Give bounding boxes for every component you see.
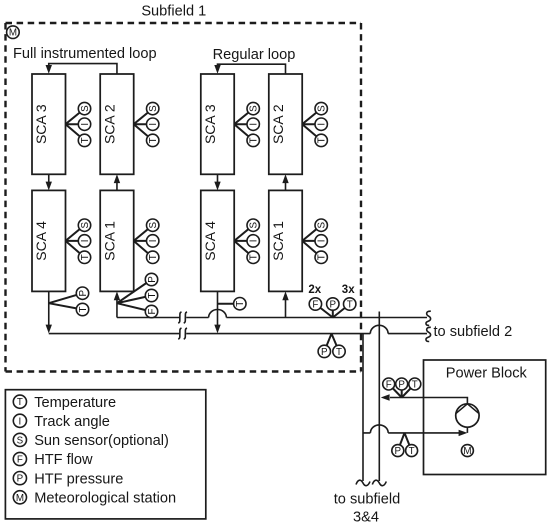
svg-text:to subfield: to subfield bbox=[334, 492, 401, 508]
svg-text:SCA 1: SCA 1 bbox=[101, 221, 117, 261]
sun sensor S SCA1 regular bbox=[315, 219, 327, 231]
svg-text:T: T bbox=[148, 137, 159, 143]
sensor fan SCA4 regular loop bbox=[234, 225, 253, 257]
wire SCA4 full loop outlet bbox=[48, 291, 50, 325]
svg-text:Full instrumented loop: Full instrumented loop bbox=[13, 46, 157, 62]
SCA 1 box full loop bbox=[100, 190, 134, 291]
SCA 2 box regular loop bbox=[269, 74, 302, 174]
sensor fan SCA1 full loop bbox=[134, 225, 153, 257]
temperature T SCA1 regular bbox=[315, 251, 327, 263]
svg-text:S: S bbox=[317, 105, 328, 112]
svg-text:to subfield 2: to subfield 2 bbox=[434, 324, 513, 340]
temperature T SCA3 full bbox=[78, 134, 90, 146]
svg-text:T: T bbox=[148, 254, 159, 260]
pressure P pump suction bbox=[392, 445, 404, 457]
SCA 1 box regular loop bbox=[269, 190, 302, 291]
legend meteorological station bbox=[13, 491, 26, 504]
svg-text:T: T bbox=[412, 379, 418, 390]
svg-text:P: P bbox=[321, 347, 328, 358]
svg-text:I: I bbox=[317, 123, 328, 126]
svg-text:Temperature: Temperature bbox=[34, 395, 116, 411]
pump U1 bbox=[456, 404, 479, 427]
arrow onto hot header mid bbox=[214, 325, 220, 334]
svg-text:I: I bbox=[249, 240, 260, 243]
arrow into SCA1 full loop bbox=[114, 291, 120, 300]
cold vertical from power block bbox=[378, 312, 380, 482]
wire SCA4 regular loop outlet bbox=[217, 291, 219, 325]
svg-text:T: T bbox=[249, 137, 260, 143]
arrow into pump bbox=[459, 430, 468, 436]
wire SCA1 regular loop inlet bbox=[285, 299, 287, 318]
sun sensor S SCA2 regular bbox=[315, 102, 327, 114]
svg-text:T: T bbox=[249, 254, 260, 260]
svg-text:3&4: 3&4 bbox=[353, 510, 379, 526]
hot header bbox=[49, 333, 427, 335]
svg-text:T: T bbox=[78, 306, 89, 312]
arrow into SCA4 regular loop bbox=[214, 182, 220, 191]
svg-text:SCA 4: SCA 4 bbox=[202, 221, 218, 261]
arrow into SCA3 regular loop bbox=[214, 65, 220, 74]
svg-text:F: F bbox=[386, 379, 392, 390]
pump discharge line bbox=[390, 398, 467, 404]
track angle I SCA4 full bbox=[78, 235, 90, 247]
hot header hop over cold vertical bbox=[370, 325, 388, 333]
squiggle end cold header bbox=[426, 311, 431, 325]
wire SCA1 to SCA2 full loop bbox=[116, 182, 118, 190]
svg-text:S: S bbox=[249, 105, 260, 112]
temperature T SCA4 regular outlet bbox=[234, 298, 246, 310]
sun sensor S SCA4 full bbox=[78, 219, 90, 231]
track angle I SCA2 full bbox=[147, 118, 159, 130]
svg-text:S: S bbox=[17, 435, 24, 446]
svg-text:SCA 3: SCA 3 bbox=[202, 104, 218, 144]
SCA 4 box full loop bbox=[32, 190, 66, 291]
flow F cold header bbox=[309, 298, 321, 310]
svg-text:SCA 3: SCA 3 bbox=[33, 104, 49, 144]
svg-text:S: S bbox=[148, 105, 159, 112]
temperature T SCA4 regular bbox=[247, 251, 259, 263]
svg-text:T: T bbox=[147, 292, 158, 298]
temperature T hot header bbox=[333, 345, 345, 357]
pressure P cold header bbox=[327, 298, 339, 310]
svg-text:I: I bbox=[317, 240, 328, 243]
svg-text:P: P bbox=[330, 299, 337, 310]
svg-text:P: P bbox=[398, 379, 405, 390]
sun sensor S SCA3 full bbox=[78, 102, 90, 114]
legend HTF flow bbox=[13, 452, 26, 465]
wire SCA1 full loop inlet bbox=[116, 299, 118, 318]
squiggle end hot header bbox=[426, 327, 431, 341]
temperature T pump suction bbox=[406, 445, 418, 457]
svg-text:T: T bbox=[80, 254, 91, 260]
arrow into SCA3 full loop bbox=[46, 65, 52, 74]
sensor fan SCA2 regular loop bbox=[302, 109, 321, 141]
svg-text:HTF pressure: HTF pressure bbox=[34, 471, 123, 487]
fan F P T power block discharge bbox=[389, 384, 415, 398]
arrow into cold vertical bbox=[381, 394, 390, 400]
wire SCA1 to SCA2 regular loop bbox=[285, 182, 287, 190]
svg-text:I: I bbox=[80, 240, 91, 243]
svg-text:Track angle: Track angle bbox=[34, 414, 110, 430]
sensor fan SCA3 full loop bbox=[66, 109, 85, 141]
fan F P T cold header bbox=[315, 304, 349, 318]
temperature T SCA4 full bbox=[78, 251, 90, 263]
fan P T power block suction bbox=[398, 433, 412, 451]
temperature T SCA4 full outlet bbox=[76, 303, 88, 315]
svg-text:T: T bbox=[336, 347, 342, 358]
squiggle end hot vertical bbox=[356, 480, 370, 486]
legend box bbox=[5, 390, 205, 519]
temperature T SCA2 full bbox=[147, 134, 159, 146]
svg-text:M: M bbox=[9, 28, 17, 39]
temperature T SCA3 regular bbox=[247, 134, 259, 146]
svg-text:M: M bbox=[16, 493, 24, 504]
temperature T cold header bbox=[344, 298, 356, 310]
SCA 2 box full loop bbox=[100, 74, 134, 174]
svg-text:T: T bbox=[17, 397, 23, 408]
track angle I SCA4 regular bbox=[247, 235, 259, 247]
legend track angle bbox=[13, 414, 26, 427]
svg-text:P: P bbox=[17, 474, 24, 485]
pressure P SCA1 full inlet bbox=[145, 273, 157, 285]
svg-text:3x: 3x bbox=[342, 284, 355, 296]
pressure P pump discharge bbox=[396, 378, 408, 390]
track angle I SCA1 regular bbox=[315, 235, 327, 247]
sensor fan SCA4 full loop bbox=[66, 225, 85, 257]
arrow onto hot header left bbox=[46, 325, 52, 334]
svg-text:P: P bbox=[78, 289, 89, 296]
wire top connector regular loop bbox=[218, 64, 286, 74]
pressure P hot header bbox=[318, 345, 330, 357]
svg-text:Subfield 1: Subfield 1 bbox=[141, 4, 206, 20]
fan P T hot header bbox=[324, 334, 339, 352]
cold header hop over regular outlet bbox=[209, 310, 227, 318]
fan P T F below SCA1 full loop bbox=[117, 280, 152, 312]
svg-text:S: S bbox=[80, 221, 91, 228]
track angle I SCA1 full bbox=[147, 235, 159, 247]
temperature T SCA2 regular bbox=[315, 134, 327, 146]
svg-text:M: M bbox=[463, 446, 471, 457]
fan P T below SCA4 full loop bbox=[49, 293, 83, 309]
SCA 3 box full loop bbox=[32, 74, 66, 174]
svg-text:F: F bbox=[312, 299, 318, 310]
svg-text:S: S bbox=[80, 105, 91, 112]
sensor fan SCA1 regular loop bbox=[302, 225, 321, 257]
flow F pump discharge bbox=[383, 378, 395, 390]
svg-text:S: S bbox=[317, 221, 328, 228]
svg-text:T: T bbox=[317, 137, 328, 143]
pump suction line bbox=[363, 427, 467, 433]
svg-text:F: F bbox=[147, 308, 158, 314]
hot vertical to power block bbox=[362, 334, 364, 481]
svg-text:S: S bbox=[249, 221, 260, 228]
track angle I SCA3 regular bbox=[247, 118, 259, 130]
sun sensor S SCA4 regular bbox=[247, 219, 259, 231]
meteorological station M subfield bbox=[7, 26, 20, 39]
break marks hot header bbox=[178, 328, 187, 339]
SCA 3 box regular loop bbox=[201, 74, 234, 174]
svg-text:2x: 2x bbox=[308, 284, 321, 296]
power block box bbox=[424, 360, 546, 475]
legend temperature bbox=[13, 395, 26, 408]
track angle I SCA2 regular bbox=[315, 118, 327, 130]
svg-text:T: T bbox=[317, 254, 328, 260]
svg-text:I: I bbox=[80, 123, 91, 126]
svg-text:F: F bbox=[17, 455, 23, 466]
svg-text:I: I bbox=[19, 416, 22, 427]
track angle I SCA3 full bbox=[78, 118, 90, 130]
svg-text:SCA 2: SCA 2 bbox=[270, 104, 286, 144]
temperature T pump discharge bbox=[409, 378, 421, 390]
break marks cold header bbox=[178, 312, 187, 323]
sun sensor S SCA2 full bbox=[147, 102, 159, 114]
pressure P SCA4 full outlet bbox=[76, 287, 88, 299]
svg-text:T: T bbox=[347, 299, 353, 310]
svg-text:SCA 4: SCA 4 bbox=[33, 221, 49, 261]
sun sensor S SCA1 full bbox=[147, 219, 159, 231]
flow F SCA1 full inlet bbox=[145, 305, 157, 317]
svg-text:T: T bbox=[235, 301, 246, 307]
SCA 4 box regular loop bbox=[201, 190, 234, 291]
svg-text:T: T bbox=[80, 137, 91, 143]
svg-text:P: P bbox=[395, 446, 402, 457]
svg-text:S: S bbox=[148, 221, 159, 228]
svg-text:I: I bbox=[148, 240, 159, 243]
suction hop over cold vertical bbox=[370, 425, 388, 433]
subfield 1 dashed boundary bbox=[6, 23, 362, 372]
arrow into SCA4 full loop bbox=[46, 182, 52, 191]
sensor fan SCA2 full loop bbox=[134, 109, 153, 141]
svg-text:I: I bbox=[249, 123, 260, 126]
temperature T SCA1 full inlet bbox=[145, 289, 157, 301]
svg-text:I: I bbox=[148, 123, 159, 126]
temperature T SCA1 full bbox=[147, 251, 159, 263]
motor M pump bbox=[461, 445, 473, 457]
legend sun sensor bbox=[13, 433, 26, 446]
svg-text:Sun sensor(optional): Sun sensor(optional) bbox=[34, 433, 169, 449]
wire SCA3 to SCA4 regular loop bbox=[217, 174, 219, 183]
wire SCA3 to SCA4 full loop bbox=[48, 174, 50, 183]
arrow into SCA2 full loop bbox=[114, 174, 120, 183]
svg-text:SCA 2: SCA 2 bbox=[101, 104, 117, 144]
arrow into SCA2 regular loop bbox=[282, 174, 288, 183]
sensor fan SCA3 regular loop bbox=[234, 109, 253, 141]
svg-text:HTF flow: HTF flow bbox=[34, 452, 93, 468]
cold header bbox=[117, 317, 427, 319]
svg-text:Meteorological station: Meteorological station bbox=[34, 491, 176, 507]
wire T sensor SCA4 regular loop bbox=[218, 303, 240, 305]
wire top connector full loop bbox=[49, 64, 117, 74]
svg-text:SCA 1: SCA 1 bbox=[270, 221, 286, 261]
arrow into SCA1 regular loop bbox=[282, 291, 288, 300]
svg-text:P: P bbox=[147, 276, 158, 283]
svg-text:Power Block: Power Block bbox=[446, 366, 528, 382]
sun sensor S SCA3 regular bbox=[247, 102, 259, 114]
squiggle end cold vertical bbox=[372, 480, 386, 486]
svg-text:Regular loop: Regular loop bbox=[213, 47, 296, 63]
legend HTF pressure bbox=[13, 472, 26, 485]
svg-text:T: T bbox=[409, 446, 415, 457]
